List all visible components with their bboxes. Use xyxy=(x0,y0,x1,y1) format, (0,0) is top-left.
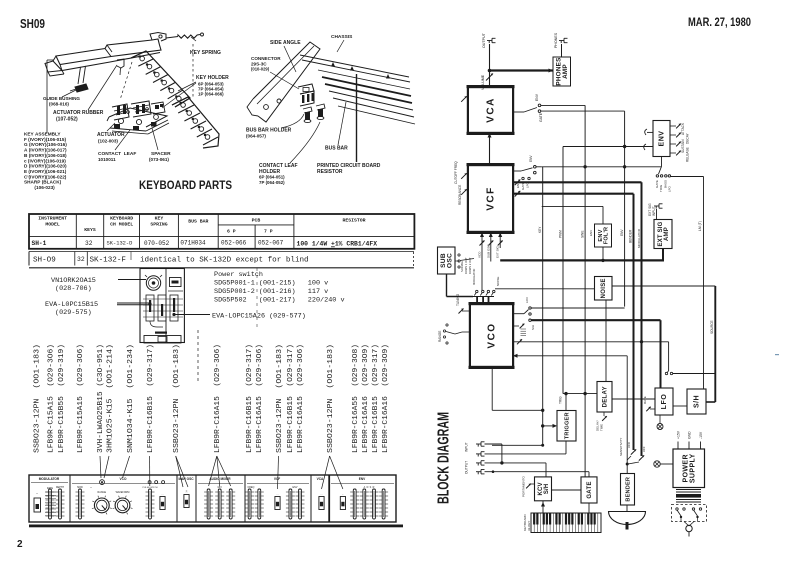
svg-text:7 P: 7 P xyxy=(264,229,273,235)
panel slider at x=259.3 xyxy=(255,491,264,493)
actuator rubber part xyxy=(117,59,124,68)
block KCV S-H xyxy=(535,477,552,501)
wire vco mod thin xyxy=(531,307,624,309)
vco bottom to key line xyxy=(491,367,493,410)
svg-text:(029-575): (029-575) xyxy=(55,309,92,317)
svg-text:KEY: KEY xyxy=(538,226,542,233)
key front hook xyxy=(45,61,62,72)
svg-text:-15V: -15V xyxy=(699,431,703,439)
panel section dividers xyxy=(69,475,71,522)
dashed center line xyxy=(192,44,194,98)
svg-text:FOL'R: FOL'R xyxy=(604,227,610,245)
svg-text:DEPTH: DEPTH xyxy=(56,486,64,489)
VCF bold line 1 xyxy=(513,181,642,183)
wire selector to right vertical xyxy=(671,176,704,178)
svg-text:TIME: TIME xyxy=(600,424,604,431)
block NOISE xyxy=(595,277,613,301)
sub osc bottom wire xyxy=(446,274,448,297)
svg-text:VOLUME: VOLUME xyxy=(481,74,485,90)
lfo man switch xyxy=(665,372,667,374)
svg-text:A D S R: A D S R xyxy=(364,486,375,489)
block GATE xyxy=(581,477,597,503)
svg-text:LFB9R-C16A15 (O29-3O6): LFB9R-C16A15 (O29-3O6) xyxy=(256,344,264,453)
svg-text:SDG5P001-1 (001-215) 100 v: SDG5P001-1 (001-215) 100 v xyxy=(214,280,328,288)
svg-text:ATTACK: ATTACK xyxy=(681,122,685,135)
svg-text:LM (T): LM (T) xyxy=(698,221,702,231)
bold mix bus y260 xyxy=(500,259,664,261)
svg-text:RESISTOR: RESISTOR xyxy=(317,169,343,175)
panel switch at x=162.5 xyxy=(160,497,165,510)
panel slider at x=383.6 xyxy=(379,491,388,493)
svg-text:LFO: LFO xyxy=(525,296,529,303)
svg-text:VCA: VCA xyxy=(317,477,324,481)
svg-text:ACTUATOR: ACTUATOR xyxy=(97,132,125,138)
chassis arrows xyxy=(331,62,335,67)
panel bottom heavy line xyxy=(29,525,403,528)
wire to ENV upper xyxy=(645,129,647,135)
svg-text:(107-052): (107-052) xyxy=(56,117,78,123)
connector block xyxy=(298,84,314,94)
svg-text:071H034: 071H034 xyxy=(180,240,206,247)
svg-text:BENDER: BENDER xyxy=(625,477,631,502)
parts table xyxy=(29,0,414,249)
power supply top stubs xyxy=(677,442,679,450)
lfo to sh xyxy=(673,405,687,407)
key holder ladder upper xyxy=(131,51,190,107)
trunk line x563 (trig) xyxy=(562,147,564,394)
svg-text:SK-132-D: SK-132-D xyxy=(107,241,133,247)
svg-text:3VH-LWAO25B15 (C3O-951): 3VH-LWAO25B15 (C3O-951) xyxy=(97,344,105,453)
VCF bold line 2 xyxy=(513,193,634,195)
panel switch at x=321.5 xyxy=(319,497,324,510)
svg-text:VCA: VCA xyxy=(486,97,497,123)
block ENV xyxy=(653,121,670,157)
svg-text:D (IVORY)(106-020): D (IVORY)(106-020) xyxy=(24,164,67,169)
bender wheel xyxy=(609,512,646,525)
power plug xyxy=(684,522,689,527)
key line to trigger xyxy=(541,424,544,427)
svg-text:'": '" xyxy=(36,492,38,496)
svg-text:KEY HOLDER: KEY HOLDER xyxy=(196,75,229,81)
svg-text:NOISE: NOISE xyxy=(496,277,500,286)
svg-text:SSBO23-12PN (OO1-183): SSBO23-12PN (OO1-183) xyxy=(173,344,181,453)
svg-text:070-052: 070-052 xyxy=(144,240,170,247)
svg-text:6 P: 6 P xyxy=(227,229,236,235)
ext sig amp bottom stub xyxy=(662,249,664,261)
svg-text:S/H: S/H xyxy=(694,395,701,408)
svg-text:DECAY: DECAY xyxy=(686,132,690,144)
svg-text:LFB9R-C15A15 (O29-3O6): LFB9R-C15A15 (O29-3O6) xyxy=(47,344,55,453)
svg-text:CONNECTOR: CONNECTOR xyxy=(251,56,281,61)
svg-text:BENDER: BENDER xyxy=(629,229,633,243)
svg-text:KEYS: KEYS xyxy=(84,227,96,233)
svg-text:SNM1O34-K15 (OO1-234): SNM1O34-K15 (OO1-234) xyxy=(127,344,135,453)
svg-text:SH-1: SH-1 xyxy=(32,240,47,247)
bold lfo mod bus xyxy=(531,319,660,321)
bus bars xyxy=(322,77,411,96)
panel switch at x=277.5 xyxy=(275,497,280,510)
svg-text:PORTAMENTO: PORTAMENTO xyxy=(522,475,526,497)
panel slider at x=364.3 xyxy=(360,491,369,493)
svg-text:EVA-LOPC15A26 (029-577): EVA-LOPC15A26 (029-577) xyxy=(212,313,306,321)
svg-text:E (IVORY)(106-021): E (IVORY)(106-021) xyxy=(24,169,67,174)
svg-text:2: 2 xyxy=(17,539,23,550)
svg-text:MODULATOR: MODULATOR xyxy=(472,269,476,285)
svg-text:OSC: OSC xyxy=(447,253,454,268)
svg-text:+15V: +15V xyxy=(677,430,681,439)
svg-text:LFB9R-C16A15 (O29-3O6): LFB9R-C16A15 (O29-3O6) xyxy=(297,344,305,453)
panel slider at x=249.6 xyxy=(245,491,254,493)
bender sensitivity pots xyxy=(631,449,636,454)
svg-text:VCO: VCO xyxy=(120,477,127,481)
svg-text:KEY ASSEMBLY: KEY ASSEMBLY xyxy=(24,132,61,137)
svg-text:OUTPUT: OUTPUT xyxy=(465,461,469,474)
svg-text:OUTPUT: OUTPUT xyxy=(482,32,486,48)
svg-text:NOISE: NOISE xyxy=(601,278,607,298)
svg-text:GND: GND xyxy=(688,431,692,439)
svg-text:ENV: ENV xyxy=(620,229,624,236)
svg-text:7P (064-052): 7P (064-052) xyxy=(259,180,285,185)
pwm line xyxy=(513,341,669,343)
power pilot lamp xyxy=(654,461,660,467)
power switch drawing xyxy=(140,269,184,344)
kcv sh to keyboard xyxy=(542,501,544,513)
voltage selector dashed box xyxy=(672,505,707,522)
svg-text:KEYBOARD: KEYBOARD xyxy=(110,216,133,222)
ENV trigger selector xyxy=(661,157,663,167)
svg-text:VCF: VCF xyxy=(642,446,646,452)
svg-text:RESONANCE: RESONANCE xyxy=(458,185,462,205)
VCO led and circles xyxy=(100,480,105,485)
svg-text:PCB: PCB xyxy=(252,218,261,224)
key spring xyxy=(166,37,178,39)
trunk line x585 (gate) xyxy=(584,105,586,477)
svg-text:MAN OSC: MAN OSC xyxy=(178,477,194,481)
svg-text:SUSTAIN: SUSTAIN xyxy=(681,139,685,153)
svg-text:(010-029): (010-029) xyxy=(251,67,270,72)
svg-text:ENV: ENV xyxy=(359,477,366,481)
svg-text:KEY SPRING: KEY SPRING xyxy=(190,50,221,56)
block LFO xyxy=(655,388,673,415)
panel slider at x=290.4 xyxy=(286,491,295,493)
svg-text:ENV: ENV xyxy=(293,486,298,489)
svg-text:DELAY: DELAY xyxy=(602,386,608,407)
svg-text:32: 32 xyxy=(85,240,93,247)
callout leader lines xyxy=(100,456,101,478)
svg-text:(073-061): (073-061) xyxy=(149,157,169,162)
svg-text:G (IVORY)(106-016): G (IVORY)(106-016) xyxy=(24,142,67,147)
range selector xyxy=(446,324,448,326)
mixer switches into VCO xyxy=(476,290,478,292)
svg-text:KEY: KEY xyxy=(155,216,164,222)
VCF left pots xyxy=(461,173,467,179)
svg-text:ENV: ENV xyxy=(529,155,533,162)
block VCF xyxy=(467,163,515,234)
svg-text:VCO: VCO xyxy=(487,322,498,348)
block VCO xyxy=(469,302,515,369)
actuator cluster xyxy=(109,108,167,127)
volume pot xyxy=(486,74,493,81)
svg-text:...: ... xyxy=(342,493,344,496)
svg-text:(102-003): (102-003) xyxy=(98,139,118,144)
ENV sliders attack decay sustain release xyxy=(670,125,676,127)
jack wires xyxy=(485,443,502,445)
dashed leader below power switch xyxy=(197,330,199,383)
svg-text:EVA-L0PC15B15: EVA-L0PC15B15 xyxy=(45,301,98,309)
svg-text:RESISTOR: RESISTOR xyxy=(342,218,365,224)
svg-text:=: = xyxy=(186,489,188,493)
svg-text:SSBO23-12PN (OO1-183): SSBO23-12PN (OO1-183) xyxy=(276,344,284,453)
svg-text:RELEASE: RELEASE xyxy=(686,147,690,162)
svg-text:RANGE: RANGE xyxy=(98,491,107,494)
svg-text:ACTUATOR RUBBER: ACTUATOR RUBBER xyxy=(53,110,104,116)
wire vco mod from x624 xyxy=(531,306,624,308)
chassis rail lines xyxy=(300,55,409,77)
svg-text:VCF: VCF xyxy=(274,477,280,481)
svg-text:052-067: 052-067 xyxy=(258,240,284,247)
svg-text:DOWN 1 OCT: DOWN 1 OCT xyxy=(464,257,468,274)
panel slider at x=230.7 xyxy=(226,491,235,493)
svg-text:SDG5P502 (001-217) 220/240: SDG5P502 (001-217) 220/240 v xyxy=(214,297,345,305)
svg-text:(106-023): (106-023) xyxy=(24,185,55,190)
trig line to delay xyxy=(563,393,597,395)
key assembly bracket line xyxy=(47,59,54,61)
svg-text:ENV: ENV xyxy=(659,131,666,147)
block POWER SUPPLY xyxy=(673,449,705,488)
svg-text:INSTRUMENT: INSTRUMENT xyxy=(38,216,67,222)
block VCA xyxy=(467,85,515,135)
key holder ladder lower xyxy=(172,97,219,148)
VCF bottom pots xyxy=(480,233,484,238)
svg-text:": " xyxy=(90,486,92,490)
svg-text:ENV: ENV xyxy=(589,230,593,236)
panel switch at x=342.9 xyxy=(340,497,345,510)
svg-text:WAVEFORM: WAVEFORM xyxy=(116,491,130,494)
svg-text:FREQ: FREQ xyxy=(248,486,255,489)
svg-text:RATE: RATE xyxy=(643,396,647,404)
svg-text:LFB9R-C16A55 (O29-3O8): LFB9R-C16A55 (O29-3O8) xyxy=(352,344,360,453)
svg-text:S/H: S/H xyxy=(544,484,550,495)
vco ext input arrow xyxy=(513,354,518,358)
svg-text:LFB9R-C16B15 (O29-317): LFB9R-C16B15 (O29-317) xyxy=(287,344,295,453)
block DELAY xyxy=(597,382,612,413)
svg-text:AMP: AMP xyxy=(562,64,569,79)
VCO right switch lfo xyxy=(513,313,524,315)
svg-text:NORMAL: NORMAL xyxy=(460,260,464,272)
svg-text:LFB9R-C16A16 (O29-3O9): LFB9R-C16A16 (O29-3O9) xyxy=(362,344,370,453)
svg-text:INPUT: INPUT xyxy=(652,206,656,216)
delay to lfo xyxy=(612,398,655,400)
svg-text:1P (064-066): 1P (064-066) xyxy=(198,92,224,97)
bus bar holder feet xyxy=(303,107,312,113)
noise stub down xyxy=(605,300,607,382)
svg-text:c (IVORY)(106-019): c (IVORY)(106-019) xyxy=(24,158,66,163)
delay time pot xyxy=(603,412,605,416)
svg-text:LFB9R-C16A16 (O29-3O9): LFB9R-C16A16 (O29-3O9) xyxy=(382,344,390,453)
svg-text:SOURCE: SOURCE xyxy=(710,320,714,334)
transformer xyxy=(676,489,701,491)
svg-text:1010011: 1010011 xyxy=(98,157,116,162)
panel slider at x=60 xyxy=(56,491,65,493)
svg-text:LFB9R-C16A15 (O29-3O6): LFB9R-C16A15 (O29-3O6) xyxy=(214,344,222,453)
trunk line x542 (key cv) xyxy=(542,167,544,446)
svg-text:ENV: ENV xyxy=(535,93,539,101)
svg-text:POWER: POWER xyxy=(682,454,689,482)
wire key track xyxy=(536,166,542,168)
wire VCA to VCF xyxy=(489,133,491,165)
svg-text:BLOCK DIAGRAM: BLOCK DIAGRAM xyxy=(436,412,453,504)
keyboard exploded view: key body xyxy=(56,39,161,65)
panel switch at x=186.5 xyxy=(184,495,189,508)
svg-text:LFB9R-C15A15 (O29-3O6): LFB9R-C15A15 (O29-3O6) xyxy=(77,344,85,453)
svg-text:TRIGGER: TRIGGER xyxy=(564,412,570,439)
panel slider at x=208.6 xyxy=(204,491,213,493)
svg-text:F (IVORY)(106-015): F (IVORY)(106-015) xyxy=(24,137,66,142)
svg-text:SUB OSC: SUB OSC xyxy=(486,244,490,258)
kcv to gate link xyxy=(552,489,582,491)
cv gate jacks xyxy=(476,443,481,445)
svg-text:GATE: GATE xyxy=(587,481,593,498)
svg-text:Power switch: Power switch xyxy=(214,271,263,279)
wire noise to SH source xyxy=(612,285,715,287)
lfo rate pot xyxy=(650,408,655,410)
svg-text:MODEL: MODEL xyxy=(45,222,60,228)
svg-text:DOWN 2 OCT: DOWN 2 OCT xyxy=(468,257,472,274)
VCA mode switch xyxy=(513,111,524,113)
output jack xyxy=(487,40,492,42)
svg-text:052-066: 052-066 xyxy=(221,240,247,247)
panel knob at x=101.8 xyxy=(94,498,109,513)
ext sig input jack xyxy=(654,205,659,207)
svg-text:KEYBOARD PARTS: KEYBOARD PARTS xyxy=(139,180,232,192)
wire env fol xyxy=(542,205,603,207)
svg-text:S/H: S/H xyxy=(531,325,535,330)
wire output to VCA xyxy=(489,44,491,87)
panel slider at x=80 xyxy=(76,491,85,493)
svg-text:LFB9R-C16B15 (O29-317): LFB9R-C16B15 (O29-317) xyxy=(147,344,155,453)
svg-text:SIDE ANGLE: SIDE ANGLE xyxy=(270,40,301,46)
svg-text:BUS BAR: BUS BAR xyxy=(188,219,208,225)
panel slider at x=354.7 xyxy=(350,491,359,493)
svg-text:...: ... xyxy=(320,493,322,496)
wire to phones amp xyxy=(490,69,554,71)
svg-text:INPUT: INPUT xyxy=(465,442,469,452)
panel slider at x=219.7 xyxy=(215,491,224,493)
svg-text:LFB9R-C16B15 (O29-317): LFB9R-C16B15 (O29-317) xyxy=(246,344,254,453)
front panel outline xyxy=(29,475,396,522)
sub osc selector xyxy=(458,254,460,256)
svg-text:32: 32 xyxy=(77,256,85,263)
svg-text:GUIDE BUSHING: GUIDE BUSHING xyxy=(43,96,80,101)
vco pwm pot stub xyxy=(513,325,519,327)
noise feed to mixer xyxy=(495,288,595,290)
svg-text:MODULATOR: MODULATOR xyxy=(637,228,641,248)
wire env bus y147 xyxy=(563,146,653,148)
tuning pot xyxy=(462,310,470,312)
svg-text:PWM: PWM xyxy=(559,230,563,238)
panel slider at x=150 xyxy=(146,491,155,493)
phones jack xyxy=(559,40,564,42)
small mark right xyxy=(775,354,779,355)
dropper and guide bushing xyxy=(78,67,81,84)
svg-text:CHASSIS: CHASSIS xyxy=(331,34,353,40)
svg-text:LFB9R-C15B55 (O29-319): LFB9R-C15B55 (O29-319) xyxy=(58,344,66,453)
svg-text:(064-057): (064-057) xyxy=(246,134,266,139)
panel slider at x=300 xyxy=(296,491,305,493)
wire VCA switch to gate line xyxy=(541,104,585,106)
svg-text:TRIG: TRIG xyxy=(559,396,563,404)
svg-text:SH-O9: SH-O9 xyxy=(33,257,56,265)
block PHONES AMP xyxy=(553,57,571,86)
svg-text:LFO: LFO xyxy=(661,394,668,410)
block EXT SIG AMP xyxy=(654,220,672,249)
svg-text:...: ... xyxy=(276,493,278,496)
svg-text:3HM1O25-K15 (OO1-214): 3HM1O25-K15 (OO1-214) xyxy=(107,344,115,453)
panel slider at x=374 xyxy=(370,491,379,493)
svg-text:SUPPLY: SUPPLY xyxy=(689,453,696,483)
svg-text:BUS BAR: BUS BAR xyxy=(325,146,348,152)
svg-text:A (IVORY)(106-017): A (IVORY)(106-017) xyxy=(24,148,67,153)
env fol bottom stub xyxy=(602,247,604,260)
svg-text:B (IVORY)(106-018): B (IVORY)(106-018) xyxy=(24,153,67,158)
wire VCA switch lower xyxy=(541,110,625,112)
block S H xyxy=(687,389,706,414)
svg-text:AUDIO MIXER: AUDIO MIXER xyxy=(209,477,231,481)
svg-text:SK-132-F: SK-132-F xyxy=(90,257,127,265)
block SUB OSC xyxy=(438,247,456,274)
key tail notch xyxy=(150,33,166,42)
SH-09 note strip xyxy=(29,252,414,268)
svg-text:(028-706): (028-706) xyxy=(55,285,92,293)
svg-text:CH MODEL: CH MODEL xyxy=(110,222,133,228)
lfo lamp xyxy=(657,424,663,430)
block ENV FOLLOWER xyxy=(595,224,612,247)
svg-text:VCO: VCO xyxy=(478,251,482,258)
svg-text:SPRING: SPRING xyxy=(150,222,167,228)
svg-text:SSBO23-12PN (OO1-183): SSBO23-12PN (OO1-183) xyxy=(327,344,335,453)
svg-text:SHARP (BLACK): SHARP (BLACK) xyxy=(24,180,62,185)
svg-text:32-KEY: 32-KEY xyxy=(527,521,531,531)
block BENDER xyxy=(621,474,635,506)
svg-text:100 1/4W +1% CRB1/4FX: 100 1/4W +1% CRB1/4FX xyxy=(297,241,378,248)
chassis side angle panel xyxy=(253,42,320,122)
svg-text:SENSITIVITY: SENSITIVITY xyxy=(619,438,623,456)
trunk line x624.6 (vca env) xyxy=(624,111,626,307)
svg-text:RANGE: RANGE xyxy=(438,331,442,342)
svg-text:SH09: SH09 xyxy=(20,16,45,31)
svg-text:...: ... xyxy=(161,493,163,496)
svg-text:EXT SIG: EXT SIG xyxy=(496,245,500,258)
svg-text:PHONES: PHONES xyxy=(554,32,558,48)
panel knob at x=122.5 xyxy=(115,498,130,513)
svg-text:AMP: AMP xyxy=(664,227,670,241)
svg-text:LFB9R-C16B15 (O29-317): LFB9R-C16B15 (O29-317) xyxy=(372,344,380,453)
keyboard 32-key xyxy=(531,513,601,533)
svg-text:C'(IVORY)(106-022): C'(IVORY)(106-022) xyxy=(24,174,67,179)
svg-text:LFO: LFO xyxy=(668,185,672,192)
svg-text:GATE: GATE xyxy=(539,112,543,122)
panel slider at x=50 xyxy=(46,491,55,493)
svg-text:VN1ORK2OA15: VN1ORK2OA15 xyxy=(51,277,96,285)
svg-text:TUNING: TUNING xyxy=(456,293,460,306)
portamento pot xyxy=(530,483,535,485)
svg-text:VCF: VCF xyxy=(486,186,497,211)
svg-text:RATE: RATE xyxy=(47,487,54,490)
svg-text:MAR. 27, 1980: MAR. 27, 1980 xyxy=(688,17,751,29)
block TRIGGER xyxy=(557,411,576,442)
svg-text:SSBO23-12PN (OO1-183): SSBO23-12PN (OO1-183) xyxy=(33,344,41,453)
svg-text:CUTOFF FREQ: CUTOFF FREQ xyxy=(454,161,458,184)
